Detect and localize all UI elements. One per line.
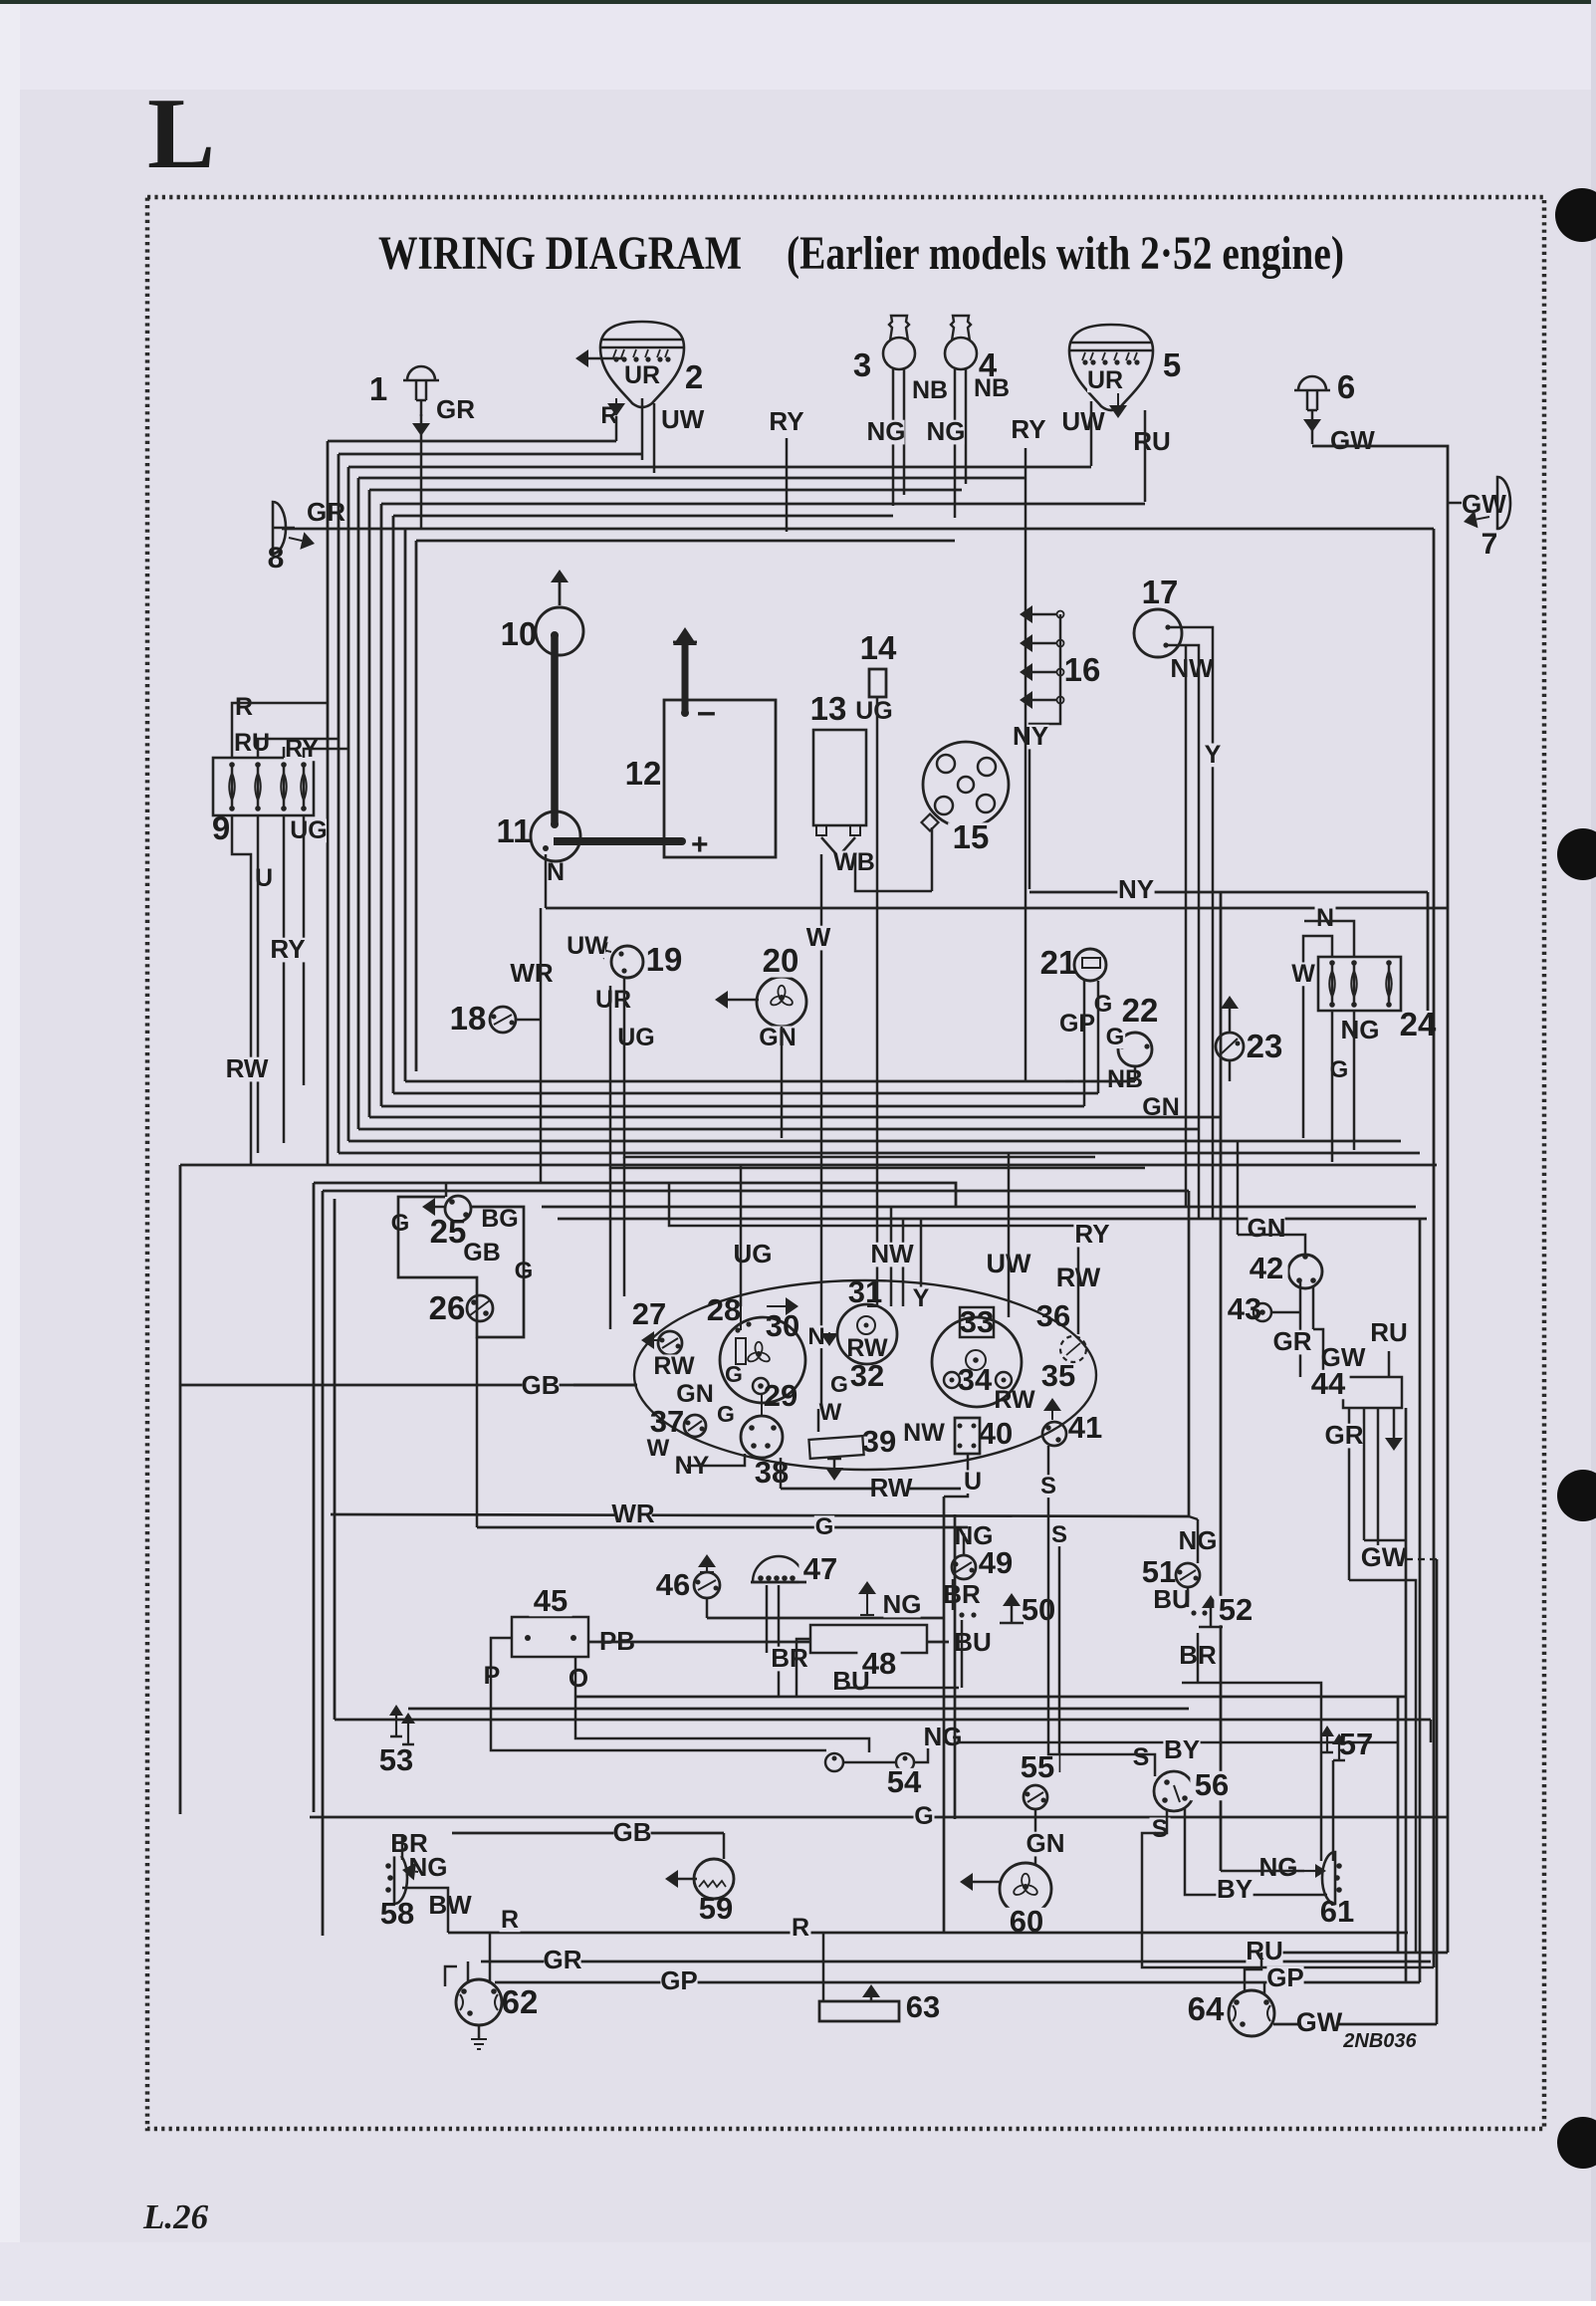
label GN 20 [760, 1027, 796, 1050]
svg-text:BU: BU [1153, 1584, 1191, 1614]
svg-text:GP: GP [1059, 1010, 1095, 1038]
wires 52 [1187, 1587, 1190, 1607]
svg-text:GR: GR [1273, 1326, 1312, 1356]
svg-text:S: S [1051, 1521, 1067, 1548]
wire left long verticals [313, 1183, 316, 1812]
label BU 50 [954, 1631, 991, 1656]
label R fusebox [234, 696, 255, 720]
svg-text:BW: BW [428, 1890, 472, 1920]
arrow plug8 [289, 538, 302, 541]
starter relay 64 [1229, 1990, 1274, 2036]
wire NB dash [1065, 1080, 1117, 1082]
wire bus lower y1196 [323, 1190, 1189, 1193]
svg-text:59: 59 [699, 1891, 733, 1926]
punch hole dot 2 [1557, 828, 1596, 880]
punch hole dot 3 [1557, 1470, 1596, 1521]
label NY 16 [1012, 725, 1048, 750]
svg-text:RW: RW [994, 1386, 1035, 1414]
svg-text:G: G [725, 1361, 743, 1387]
svg-text:BR: BR [771, 1643, 808, 1673]
plug 8 connector [273, 502, 286, 554]
wire N drop [545, 854, 548, 908]
wire top bus y456 [339, 453, 642, 456]
plug 61 [1322, 1852, 1335, 1904]
label UW 19 [570, 935, 605, 959]
wire top bus y543 [416, 540, 955, 543]
dynamo 59 [694, 1859, 734, 1899]
instrument panel outline [634, 1280, 1096, 1470]
wires fusebox 9 bottom [232, 815, 251, 1165]
fuel gauge 28 [720, 1317, 805, 1403]
label G 22 [1105, 1026, 1125, 1048]
wire W long y912 [546, 907, 1448, 910]
label RW 27 [656, 1355, 692, 1379]
label NG 61 [1259, 1856, 1296, 1881]
cluster internal wires [740, 1306, 742, 1330]
svg-text:21: 21 [1040, 944, 1077, 981]
label GW 44 [1324, 1346, 1361, 1371]
label RW cluster top [1059, 1266, 1097, 1291]
wire G y1534 [477, 1526, 968, 1529]
svg-text:NB: NB [974, 374, 1010, 402]
label W mid [807, 926, 829, 951]
svg-text:N: N [547, 858, 565, 886]
svg-text:GW: GW [1361, 1542, 1408, 1572]
svg-text:W: W [1291, 960, 1315, 988]
svg-text:31: 31 [848, 1274, 882, 1309]
wire R bottom [448, 1932, 1408, 1935]
wire NG 54 [914, 1748, 928, 1762]
svg-text:19: 19 [646, 941, 683, 978]
ignition coil 13 [813, 730, 866, 825]
svg-text:UR: UR [1087, 366, 1123, 394]
svg-text:G: G [1106, 1024, 1125, 1050]
svg-text:NG: NG [1341, 1015, 1380, 1044]
svg-text:G: G [830, 1371, 848, 1397]
svg-text:U: U [964, 1468, 982, 1496]
svg-text:BU: BU [832, 1666, 870, 1696]
label GP 21 [1059, 1013, 1095, 1037]
svg-text:49: 49 [979, 1545, 1013, 1580]
wire top bus y518 [393, 515, 893, 518]
interior lamp 55 [1024, 1785, 1047, 1809]
label BR 58 [390, 1832, 427, 1857]
wire PB [588, 1641, 810, 1644]
wire GW dash right [1406, 1558, 1437, 1560]
svg-text:56: 56 [1195, 1767, 1229, 1802]
wire box 25-26 [398, 1197, 524, 1337]
svg-text:28: 28 [707, 1292, 741, 1327]
wires fusebox 9 top [232, 703, 328, 758]
wire RU 44 [1388, 1351, 1391, 1377]
wire left outer vertical x181 [179, 1165, 182, 1814]
wire 20 down [781, 1027, 784, 1138]
wire UG cluster drop [740, 1165, 743, 1306]
wires 50 [952, 1579, 955, 1610]
svg-text:R: R [235, 693, 253, 721]
svg-text:GR: GR [1325, 1420, 1364, 1450]
wire GN 42 [1198, 1219, 1200, 1226]
label NG 58 [409, 1856, 446, 1881]
label RY left mid [269, 938, 306, 963]
wire G 55 long [310, 1816, 1448, 1819]
wire RY drop right [1025, 448, 1027, 478]
wire central bus y1111 [381, 1105, 1084, 1108]
svg-text:WIRING DIAGRAM: WIRING DIAGRAM [378, 227, 742, 280]
wire GP bottom [495, 1981, 1420, 1984]
svg-text:BG: BG [481, 1205, 519, 1233]
svg-text:63: 63 [906, 1989, 940, 2024]
switch 23 [1216, 1033, 1244, 1060]
wire GN bus to 42 [1237, 1141, 1240, 1235]
svg-text:RU: RU [1246, 1936, 1283, 1965]
wire UW cluster drop [1008, 1153, 1011, 1317]
svg-text:40: 40 [979, 1416, 1013, 1451]
bulb 3 pilot [883, 338, 915, 369]
wires 47 [766, 1585, 769, 1653]
labels 25 box [390, 1212, 410, 1235]
svg-text:BU: BU [954, 1627, 992, 1657]
ground 57 [1326, 1736, 1328, 1752]
dip switch 52 [1191, 1610, 1196, 1615]
svg-text:10: 10 [501, 615, 538, 652]
wires 62 [467, 1961, 470, 1981]
svg-text:L.26: L.26 [142, 2197, 209, 2236]
horn relay 47 [753, 1556, 804, 1582]
label NW 17 [1173, 657, 1210, 682]
dotted page border [147, 197, 1544, 2129]
svg-text:35: 35 [1041, 1358, 1075, 1393]
wires 17 down [1168, 627, 1213, 1219]
svg-text:NG: NG [955, 1520, 994, 1550]
svg-text:6: 6 [1337, 368, 1355, 405]
svg-text:GP: GP [660, 1965, 698, 1995]
svg-text:GP: GP [1266, 1962, 1304, 1992]
svg-text:GW: GW [1462, 489, 1506, 519]
svg-text:UG: UG [855, 697, 893, 725]
svg-text:5: 5 [1163, 346, 1181, 383]
label BR 52 [1179, 1644, 1216, 1669]
thick lead 10-11 [551, 635, 559, 824]
label BR 50 [943, 1583, 980, 1608]
svg-text:RY: RY [1074, 1219, 1109, 1249]
switch 22 [1118, 1033, 1152, 1066]
label NG 54 [924, 1726, 961, 1750]
svg-text:33: 33 [960, 1304, 994, 1339]
wire UW5 drop [1090, 401, 1093, 466]
label S 56 left [1131, 1746, 1152, 1770]
svg-text:62: 62 [502, 1983, 539, 2020]
svg-text:37: 37 [650, 1404, 684, 1439]
distributor 15 [923, 742, 1009, 827]
control box 44 [1343, 1377, 1402, 1408]
svg-text:W: W [819, 1399, 842, 1426]
wires below 44 [1348, 1408, 1351, 1580]
svg-text:45: 45 [534, 1583, 568, 1618]
wire top bus y492 [369, 489, 962, 492]
wire 60 top [1034, 1863, 1036, 1865]
flasher switch 45 [512, 1617, 588, 1657]
label Y 17 [1203, 744, 1224, 768]
wire bus lower y1212 [542, 1206, 1416, 1209]
svg-text:WR: WR [510, 958, 554, 988]
svg-text:RY: RY [769, 406, 803, 436]
svg-text:S: S [1133, 1743, 1150, 1771]
fuse block 48 [810, 1625, 927, 1653]
svg-text:32: 32 [850, 1358, 884, 1393]
svg-text:38: 38 [755, 1455, 789, 1490]
svg-text:3: 3 [853, 346, 871, 383]
svg-text:BR: BR [943, 1579, 981, 1609]
plug 58 [394, 1852, 407, 1904]
scanner top edge line [0, 0, 1596, 4]
svg-text:UW: UW [1061, 406, 1105, 436]
label U fusebox [254, 867, 275, 891]
svg-text:20: 20 [763, 942, 799, 979]
label RY top right [1010, 418, 1046, 443]
svg-text:NY: NY [1013, 721, 1048, 751]
label GR below 44 [1325, 1424, 1362, 1449]
lamp 21 [1074, 949, 1106, 981]
label UG cluster top [734, 1243, 771, 1268]
tachometer 31 [837, 1304, 897, 1364]
label W 24 [1293, 963, 1314, 987]
wire coil WB to dist [855, 854, 932, 891]
label UG fusebox [291, 819, 327, 843]
terminal 29 [753, 1378, 769, 1394]
svg-text:R: R [792, 1914, 809, 1942]
label G 21 [1093, 993, 1113, 1016]
speedometer 33 [932, 1317, 1022, 1407]
arrow 28 top [767, 1305, 786, 1307]
wire S 41 down [1047, 1446, 1050, 1514]
svg-text:RU: RU [234, 729, 270, 757]
wire GN 42 top [1238, 1235, 1305, 1255]
label GP 64 [1266, 1966, 1303, 1991]
svg-text:W: W [806, 922, 831, 952]
label GR plug8 [288, 501, 325, 526]
wire GB long [180, 1384, 637, 1387]
svg-text:(Earlier models with 2·52 engi: (Earlier models with 2·52 engine) [787, 227, 1344, 280]
svg-text:52: 52 [1219, 1592, 1253, 1627]
svg-text:G: G [1094, 991, 1113, 1018]
terminal 34 [944, 1372, 960, 1388]
label P 45 [482, 1665, 503, 1689]
wire NY corner down [1427, 892, 1430, 1011]
resistor 14 [869, 669, 886, 697]
label GB [522, 1374, 559, 1399]
wire distributor lead [931, 827, 934, 891]
wire bottom 47-48 long [575, 1696, 1406, 1699]
svg-text:GB: GB [613, 1817, 652, 1847]
svg-text:RU: RU [1370, 1317, 1408, 1347]
svg-text:RY: RY [270, 934, 305, 964]
svg-text:27: 27 [632, 1296, 666, 1331]
wire WR vertical [540, 908, 543, 1183]
svg-text:RU: RU [1133, 426, 1171, 456]
wire Y into cluster [920, 1219, 923, 1295]
svg-text:G: G [717, 1401, 735, 1427]
heater motor 60 [1000, 1863, 1051, 1915]
svg-text:NB: NB [912, 376, 948, 404]
wire NG 61 [1221, 1870, 1304, 1873]
wires 48 [767, 1653, 810, 1665]
svg-text:2NB036: 2NB036 [1342, 2030, 1417, 2052]
wire plug7 long [1433, 529, 1436, 1967]
svg-text:GR: GR [544, 1945, 582, 1974]
svg-text:29: 29 [764, 1378, 798, 1413]
wire GW bottom [1273, 2023, 1437, 2026]
fuse box 9 [213, 758, 314, 815]
flasher 17 [1134, 609, 1182, 657]
fuel pump 25 [445, 1196, 471, 1222]
wire 38 to RW [780, 1458, 783, 1489]
starter motor 62 [456, 1979, 502, 2025]
wire NW jog left [890, 1207, 893, 1306]
wire right vertical x1426 [1419, 1219, 1422, 1982]
arrow plug7 [1477, 517, 1489, 520]
svg-text:26: 26 [429, 1289, 466, 1326]
fuse box 24 [1318, 957, 1401, 1011]
svg-text:54: 54 [887, 1764, 922, 1799]
ignition switch 38 [741, 1416, 783, 1458]
label RU 44 [1370, 1321, 1407, 1346]
svg-text:GB: GB [522, 1370, 561, 1400]
svg-text:UW: UW [567, 932, 608, 960]
wire central bus y1122 [369, 1116, 1221, 1119]
bulb 4 pilot [945, 338, 977, 369]
wire WR y1521 [331, 1514, 1189, 1516]
svg-text:UG: UG [734, 1239, 773, 1268]
svg-text:N: N [807, 1323, 824, 1350]
wire lamp6 drop [1311, 410, 1314, 419]
fuel gauge sender 26 [467, 1295, 493, 1321]
svg-text:W: W [647, 1435, 670, 1462]
label UR 19 [595, 989, 631, 1013]
svg-text:GB: GB [463, 1239, 501, 1267]
punch hole dot 1 [1555, 188, 1596, 242]
wire RY drop left [786, 438, 789, 532]
wire 14 down long [876, 697, 879, 1306]
coil terminals [816, 825, 826, 835]
wire 63 to R line [822, 1933, 825, 2001]
svg-text:BY: BY [1164, 1734, 1200, 1764]
lamp 6 number plate [1298, 376, 1326, 390]
svg-text:UG: UG [290, 816, 328, 844]
lighting switch 41 [1042, 1422, 1066, 1446]
svg-text:Y: Y [913, 1284, 930, 1312]
label RU fusebox [234, 732, 270, 756]
wire 25 box to bus [445, 1183, 448, 1197]
svg-text:16: 16 [1064, 651, 1101, 688]
svg-text:Y: Y [1205, 741, 1222, 769]
wire right vertical x1407 [1400, 1141, 1402, 1408]
svg-text:UW: UW [661, 404, 705, 434]
wires 64 [1245, 1953, 1261, 1990]
horn 46 [694, 1572, 720, 1598]
svg-text:17: 17 [1142, 574, 1179, 610]
ground 62 [478, 2025, 481, 2039]
label O 45 [568, 1667, 589, 1692]
svg-text:NG: NG [927, 416, 966, 446]
label BY 56 [1163, 1738, 1200, 1763]
svg-text:13: 13 [810, 690, 847, 727]
arrow headlamp 2 [588, 357, 625, 360]
svg-text:NB: NB [1107, 1065, 1143, 1093]
svg-text:NG: NG [1259, 1852, 1298, 1882]
battery 12 [664, 700, 776, 857]
wire UR drop [641, 398, 644, 460]
wire top bus y480 [358, 477, 1026, 480]
label UG 14 [856, 700, 892, 724]
punch hole dot 4 [1557, 2117, 1596, 2169]
svg-text:RW: RW [226, 1053, 269, 1083]
connector block 16 arrows [1032, 613, 1057, 616]
starter switch 11 [531, 811, 580, 861]
wire central bus y1170 [180, 1164, 1437, 1167]
label N 31 [806, 1325, 826, 1348]
wire 55 down [1034, 1809, 1037, 1865]
warning lamp 10 [536, 607, 583, 655]
wire GW to corner [1312, 446, 1448, 1953]
wire NB4 drop [954, 369, 957, 518]
svg-text:G: G [914, 1802, 933, 1830]
wire 23 down [1229, 1060, 1232, 1081]
svg-text:61: 61 [1320, 1894, 1354, 1929]
label S 56 bottom [1150, 1818, 1171, 1842]
horn 49 [952, 1555, 976, 1579]
arrow 41 up [1051, 1411, 1053, 1420]
terminal 34b [996, 1372, 1012, 1388]
svg-text:NW: NW [870, 1239, 914, 1268]
label N 24 [1315, 907, 1336, 931]
wire 43 [1271, 1311, 1300, 1314]
wires 21 down [1083, 981, 1086, 1106]
wire 63 up [870, 1997, 873, 2001]
ground 53 [395, 1716, 397, 1736]
svg-text:41: 41 [1068, 1410, 1102, 1445]
wire central bus y1086 [405, 1080, 1135, 1083]
wire bus lower y1188 [314, 1183, 956, 1207]
wire 51 top [1188, 1191, 1191, 1516]
wire RU5 drop [1117, 393, 1119, 405]
svg-text:57: 57 [1339, 1727, 1373, 1761]
svg-text:39: 39 [862, 1424, 896, 1459]
wires 24 top [1304, 921, 1354, 957]
svg-text:25: 25 [430, 1213, 467, 1250]
wire top-left corner verticals [327, 441, 330, 1165]
right verticals mid [1405, 1408, 1408, 1982]
fuel tank unit 63 [819, 2001, 899, 2021]
svg-text:RW: RW [870, 1473, 913, 1502]
label WR 18 [513, 962, 550, 987]
svg-text:NG: NG [867, 416, 906, 446]
wire GR bottom [481, 1960, 1431, 1963]
label BY 61 [1216, 1878, 1253, 1903]
wires 19 down [624, 978, 1095, 1157]
panel lamp 37 [684, 1415, 706, 1437]
svg-text:43: 43 [1228, 1291, 1261, 1326]
label BU 48 [832, 1670, 869, 1695]
svg-text:22: 22 [1122, 992, 1159, 1029]
ground 39 [833, 1459, 836, 1468]
dip switch 50 [959, 1612, 964, 1617]
headlamp 2 [600, 322, 684, 407]
label RY fusebox [284, 738, 320, 762]
wire RY top vertical [1025, 478, 1027, 1081]
svg-text:46: 46 [656, 1567, 690, 1602]
warning lamp 36 [1060, 1336, 1086, 1362]
